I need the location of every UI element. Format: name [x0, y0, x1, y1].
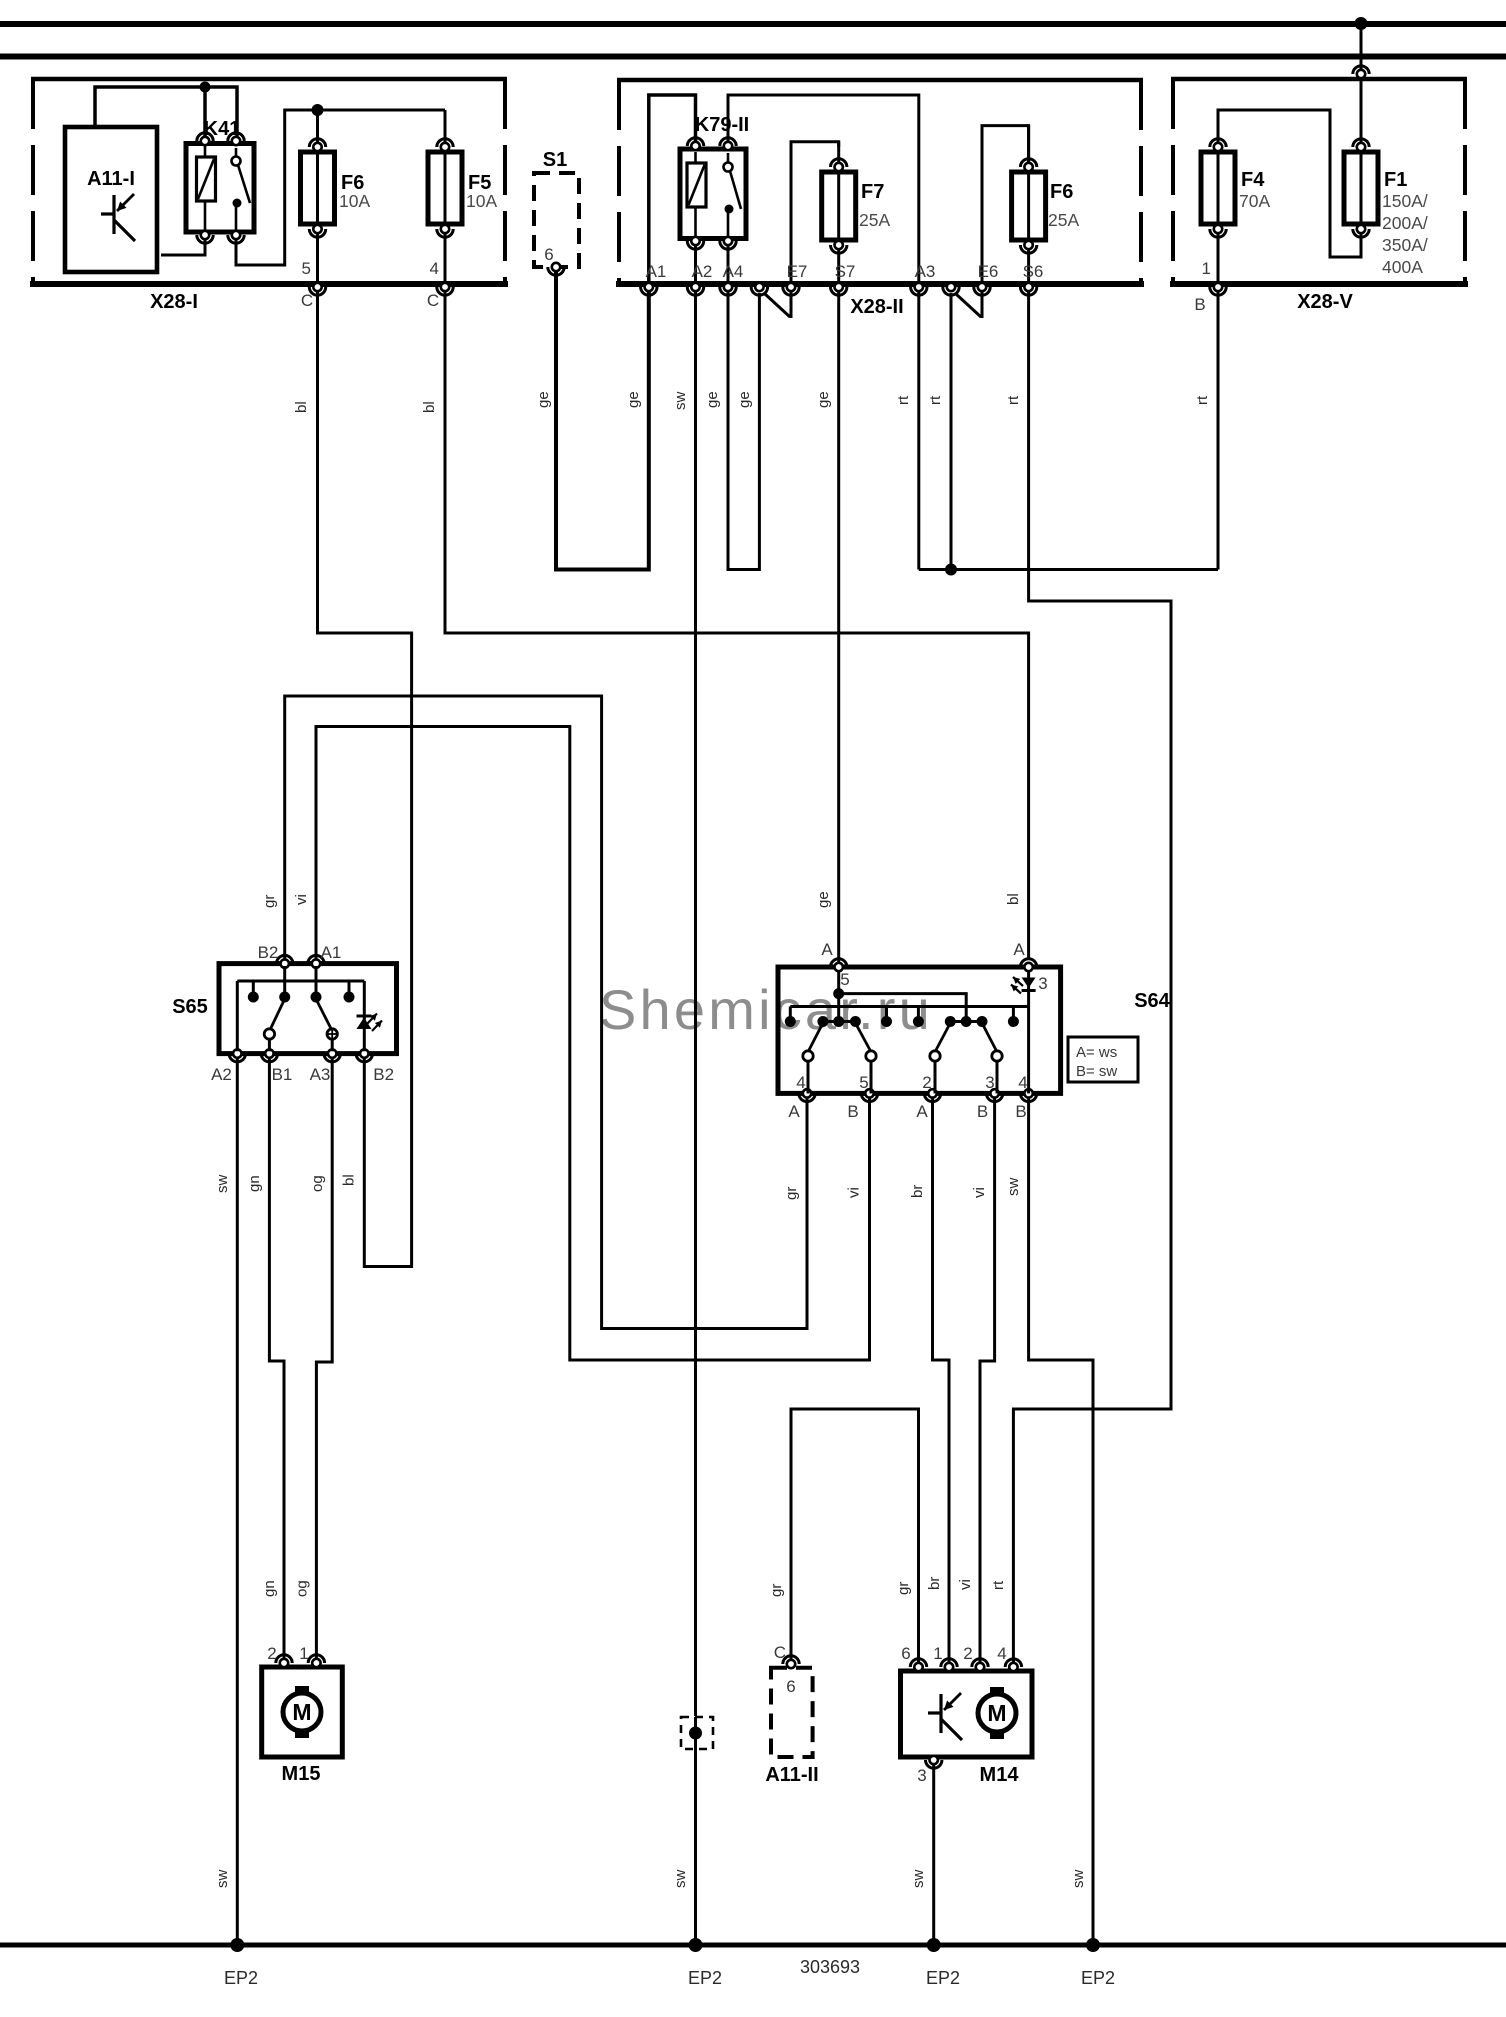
- wire A3 to K79-II contact: [728, 95, 919, 287]
- svg-text:ge: ge: [625, 391, 642, 408]
- bridge pin left of E6: [943, 283, 959, 295]
- connector box X28-II: [616, 80, 1144, 284]
- svg-text:M: M: [292, 1699, 311, 1725]
- jumper blade bridge-to-E6: [956, 292, 982, 318]
- svg-text:gn: gn: [246, 1175, 263, 1192]
- wire ge from S7 to S64 pin A: [837, 291, 840, 962]
- svg-text:1: 1: [1202, 259, 1211, 278]
- wire bus to F1 via pin: [1353, 24, 1369, 148]
- svg-text:br: br: [926, 1577, 943, 1590]
- svg-text:2: 2: [963, 1644, 972, 1663]
- svg-text:rt: rt: [1005, 395, 1022, 405]
- svg-text:sw: sw: [214, 1870, 231, 1889]
- fuse F5 10A (X28-I): [428, 110, 462, 287]
- wire A1 to K79-II coil: [649, 95, 696, 287]
- svg-text:ge: ge: [736, 391, 753, 408]
- svg-text:bl: bl: [293, 401, 310, 413]
- svg-text:2: 2: [922, 1073, 931, 1092]
- svg-text:gr: gr: [783, 1187, 800, 1200]
- svg-text:3: 3: [1038, 974, 1047, 993]
- control unit A11-I: [65, 127, 157, 272]
- wire sw from M14 pin3 to EP2: [932, 1765, 935, 1945]
- svg-text:EP2: EP2: [926, 1968, 960, 1988]
- svg-text:3: 3: [917, 1766, 926, 1785]
- svg-text:A2: A2: [211, 1065, 232, 1084]
- svg-text:K79-II: K79-II: [695, 114, 749, 136]
- svg-text:rt: rt: [990, 1580, 1007, 1590]
- wire E7 to F7 top: [791, 142, 839, 287]
- svg-text:gr: gr: [768, 1584, 785, 1597]
- wire bl from X28-I pin5: [318, 291, 412, 1267]
- svg-text:E6: E6: [978, 262, 999, 281]
- svg-text:A4: A4: [723, 262, 744, 281]
- svg-text:303693: 303693: [800, 1957, 860, 1977]
- svg-text:200A/: 200A/: [1382, 213, 1428, 233]
- pin A4 of X28-II: [720, 262, 744, 295]
- svg-text:S6: S6: [1023, 262, 1044, 281]
- svg-text:B: B: [847, 1102, 858, 1121]
- svg-text:C: C: [427, 291, 439, 310]
- svg-text:rt: rt: [1194, 395, 1211, 405]
- wire sw from A2 to ground splice: [694, 291, 697, 1716]
- fuse F4 70A (X28-V): [1201, 139, 1235, 287]
- svg-text:sw: sw: [214, 1175, 231, 1194]
- pin A1 of X28-II: [641, 262, 667, 295]
- switch unit S64: [778, 959, 1061, 1102]
- svg-text:C: C: [774, 1643, 786, 1662]
- svg-text:A11-II: A11-II: [765, 1764, 818, 1786]
- svg-text:A3: A3: [310, 1065, 331, 1084]
- wire sw from S65 A2 to EP2: [236, 1058, 239, 1945]
- wire gr A11-II to M14 pin6: [791, 1409, 919, 1663]
- svg-text:B1: B1: [272, 1065, 293, 1084]
- ground junction EP2 (S65 A2): [224, 1938, 258, 1988]
- svg-text:gr: gr: [261, 895, 278, 908]
- wire br from S64 pin2 to M14 pin1: [933, 1098, 950, 1663]
- wire K79-II pin to A4: [727, 244, 730, 287]
- fuse F1 (X28-V): [1344, 139, 1378, 237]
- wire rt from S6 to M14 pin4: [1013, 291, 1171, 1663]
- motor symbol M14: [978, 1687, 1016, 1739]
- svg-text:A11-I: A11-I: [87, 168, 135, 190]
- svg-text:2: 2: [267, 1644, 276, 1663]
- svg-text:EP2: EP2: [688, 1968, 722, 1988]
- svg-text:25A: 25A: [1048, 210, 1079, 230]
- svg-text:vi: vi: [957, 1579, 974, 1590]
- svg-text:3: 3: [985, 1073, 994, 1092]
- wire ge from A4 to bridge pin: [728, 291, 759, 570]
- pin S7 of X28-II: [831, 262, 856, 295]
- svg-text:M14: M14: [980, 1764, 1020, 1786]
- ground junction EP2 (A2 wire): [688, 1938, 722, 1988]
- svg-text:F1: F1: [1384, 169, 1407, 191]
- wire gr S65 B2 top to S64 pin 4: [285, 696, 807, 1329]
- svg-text:70A: 70A: [1239, 191, 1270, 211]
- fuse F7 25A: [822, 142, 856, 287]
- svg-text:A: A: [788, 1102, 800, 1121]
- svg-text:B: B: [1194, 295, 1205, 314]
- wire K41 coil out to A11-I: [161, 238, 205, 255]
- wire gn from S65 B1 to M15 pin2: [269, 1058, 284, 1663]
- svg-text:sw: sw: [672, 1870, 689, 1889]
- motor symbol M15: [283, 1686, 321, 1738]
- relay K79-II: [680, 138, 746, 249]
- splice junction (dashed box) on sw wire: [681, 1717, 713, 1945]
- svg-text:M: M: [987, 1700, 1006, 1726]
- connector box X28-V: [1170, 79, 1468, 284]
- svg-text:S65: S65: [172, 996, 208, 1018]
- svg-text:400A: 400A: [1382, 257, 1423, 277]
- pin 4 of X28-I: [427, 259, 453, 310]
- svg-text:sw: sw: [672, 392, 689, 411]
- svg-text:F4: F4: [1241, 169, 1265, 191]
- A11-I sensor symbol: [101, 194, 135, 241]
- svg-text:4: 4: [997, 1644, 1006, 1663]
- junction rt net: [945, 564, 957, 576]
- svg-text:gn: gn: [261, 1580, 278, 1597]
- svg-text:sw: sw: [1005, 1178, 1022, 1197]
- legend box A=ws B=sw: [1068, 1037, 1138, 1082]
- sensor symbol in M14: [928, 1693, 962, 1740]
- ground junction EP2 (S64): [1081, 1938, 1115, 1988]
- svg-text:B2: B2: [373, 1065, 394, 1084]
- svg-text:sw: sw: [910, 1870, 927, 1889]
- jumper blade bridge-to-E7: [765, 292, 791, 318]
- svg-text:A= ws: A= ws: [1076, 1044, 1117, 1061]
- svg-text:A: A: [916, 1102, 928, 1121]
- bridge pin left of E7: [751, 283, 767, 295]
- junction at F6 top: [312, 104, 324, 116]
- svg-text:A2: A2: [692, 262, 713, 281]
- svg-text:og: og: [309, 1175, 326, 1192]
- svg-text:og: og: [293, 1580, 310, 1597]
- svg-text:bl: bl: [421, 401, 438, 413]
- pin S6 of X28-II: [1020, 262, 1043, 295]
- motor unit M14: [901, 1659, 1033, 1768]
- svg-text:rt: rt: [895, 395, 912, 405]
- LED symbol in S65: [357, 1014, 383, 1032]
- svg-text:br: br: [909, 1185, 926, 1198]
- svg-text:C: C: [301, 291, 313, 310]
- svg-text:A: A: [1013, 940, 1025, 959]
- svg-text:B2: B2: [258, 943, 279, 962]
- motor M15: [262, 1655, 343, 1757]
- svg-text:rt: rt: [927, 395, 944, 405]
- svg-text:1: 1: [933, 1644, 942, 1663]
- wire E6 to F6 top: [982, 126, 1029, 287]
- svg-text:10A: 10A: [466, 191, 497, 211]
- switch unit S65: [219, 955, 397, 1061]
- svg-text:ge: ge: [815, 891, 832, 908]
- svg-text:B= sw: B= sw: [1076, 1063, 1117, 1080]
- LED symbol in S64: [1011, 977, 1036, 994]
- svg-text:S64: S64: [1134, 990, 1170, 1012]
- switch connector S1: [534, 149, 579, 275]
- pin E7 of X28-II: [783, 262, 808, 295]
- svg-text:A1: A1: [646, 262, 667, 281]
- svg-text:S1: S1: [543, 149, 567, 171]
- svg-text:B: B: [977, 1102, 988, 1121]
- pin 5 of X28-I: [301, 259, 326, 310]
- svg-text:EP2: EP2: [224, 1968, 258, 1988]
- svg-text:X28-II: X28-II: [850, 296, 903, 318]
- wire K79-II pin to A2: [694, 244, 697, 287]
- svg-text:6: 6: [544, 245, 553, 264]
- svg-text:F6: F6: [1050, 181, 1073, 203]
- svg-text:A3: A3: [915, 262, 936, 281]
- svg-text:bl: bl: [1005, 893, 1022, 905]
- wire vi from S64 pin3 to M14 pin2: [980, 1098, 995, 1663]
- svg-text:ge: ge: [704, 391, 721, 408]
- wire og from S65 A3 to M15 pin1: [316, 1058, 332, 1663]
- svg-text:5: 5: [840, 970, 849, 989]
- svg-text:X28-V: X28-V: [1297, 291, 1353, 313]
- svg-text:K41: K41: [204, 118, 241, 140]
- pin E6 of X28-II: [974, 262, 999, 295]
- svg-text:5: 5: [859, 1073, 868, 1092]
- svg-text:vi: vi: [971, 1187, 988, 1198]
- control unit connector A11-II: [771, 1643, 813, 1757]
- svg-text:B: B: [1015, 1102, 1026, 1121]
- connector box X28-I: [30, 79, 508, 284]
- svg-text:1: 1: [299, 1644, 308, 1663]
- svg-text:ge: ge: [815, 391, 832, 408]
- svg-text:10A: 10A: [339, 191, 370, 211]
- fuse F6 25A (X28-II): [1012, 126, 1046, 287]
- svg-text:ge: ge: [535, 391, 552, 408]
- svg-text:4: 4: [1018, 1073, 1027, 1092]
- svg-text:4: 4: [796, 1073, 805, 1092]
- pin 1/B of X28-V: [1194, 259, 1226, 314]
- junction on bus 30 feeding F1: [1355, 17, 1368, 30]
- ground rail EP2: [0, 1943, 1506, 1948]
- bus line 15 (second supply rail): [0, 54, 1506, 60]
- wire rt from A3 and X28-V pin B: [917, 291, 920, 570]
- wire A11-I to K41 top: [95, 82, 237, 142]
- svg-text:4: 4: [430, 259, 439, 278]
- svg-text:F7: F7: [861, 181, 884, 203]
- svg-text:vi: vi: [293, 894, 310, 905]
- svg-text:M15: M15: [282, 1763, 321, 1785]
- svg-text:A1: A1: [321, 943, 342, 962]
- svg-text:6: 6: [901, 1644, 910, 1663]
- relay K41: [186, 133, 254, 243]
- svg-text:6: 6: [786, 1677, 795, 1696]
- wire S1 pin6 ge to X28-II A1: [556, 272, 649, 570]
- ground junction EP2 (M14): [926, 1938, 960, 1988]
- svg-text:S7: S7: [835, 262, 856, 281]
- svg-text:E7: E7: [787, 262, 808, 281]
- svg-text:A: A: [821, 940, 833, 959]
- wire F1 bottom to F4 top: [1218, 110, 1361, 257]
- value 150A/200A/350A/400A: [1382, 191, 1428, 277]
- svg-text:sw: sw: [1070, 1870, 1087, 1889]
- wire bl from X28-I pin4 to S64: [445, 291, 1029, 958]
- svg-text:25A: 25A: [859, 210, 890, 230]
- svg-text:bl: bl: [340, 1174, 357, 1186]
- bus line 30 (top supply rail): [0, 21, 1506, 27]
- pin A2 of X28-II: [687, 262, 712, 295]
- svg-text:150A/: 150A/: [1382, 191, 1428, 211]
- svg-text:vi: vi: [846, 1187, 863, 1198]
- fuse F6 10A (X28-I): [301, 110, 335, 287]
- wire sw from S64 pin4 to EP2: [1029, 1098, 1093, 1945]
- svg-text:Shemicar.ru: Shemicar.ru: [599, 978, 933, 1041]
- svg-text:gr: gr: [895, 1582, 912, 1595]
- svg-text:350A/: 350A/: [1382, 235, 1428, 255]
- svg-text:EP2: EP2: [1081, 1968, 1115, 1988]
- pin A3 of X28-II: [911, 262, 936, 295]
- svg-text:5: 5: [302, 259, 311, 278]
- wire vi S65 A1 top to S64 pin 5: [316, 727, 870, 1361]
- wire K41 contact out to fuse rail: [236, 110, 445, 265]
- svg-text:X28-I: X28-I: [150, 291, 198, 313]
